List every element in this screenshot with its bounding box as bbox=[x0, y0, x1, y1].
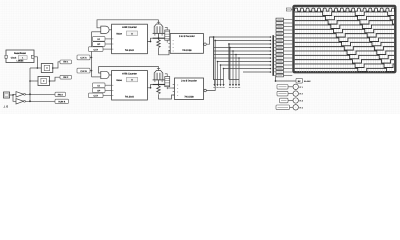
inverted output bubble U4 bbox=[204, 43, 207, 46]
tunnel EN2 bbox=[60, 75, 72, 79]
clock trace row 0 bbox=[295, 8, 395, 11]
tunnel UP 2 bbox=[93, 88, 106, 93]
svg-text:LM555: LM555 bbox=[17, 60, 24, 63]
svg-text:3 to 8 Decoder: 3 to 8 Decoder bbox=[179, 35, 195, 38]
svg-text:4-Bit Counter: 4-Bit Counter bbox=[122, 72, 137, 75]
indicator LED D2 bbox=[277, 91, 304, 96]
indicator LED D4 bbox=[276, 105, 304, 110]
svg-text:74LS138: 74LS138 bbox=[184, 95, 194, 98]
4-bit counter U1 bbox=[112, 24, 148, 54]
svg-text:3 to 8 Decoder: 3 to 8 Decoder bbox=[181, 80, 197, 83]
wire counter RCO to bar bbox=[147, 85, 152, 88]
display input pin ladder bbox=[276, 18, 292, 77]
feedback wire net FB1 bbox=[97, 20, 159, 28]
wire decoder U4 output to bus k0 bbox=[207, 37, 214, 44]
svg-text:BLANK: BLANK bbox=[304, 80, 311, 83]
svg-text:CLK A: CLK A bbox=[80, 57, 87, 60]
ground label bbox=[3, 105, 8, 109]
wire G3 out bbox=[25, 93, 55, 95]
inverted output bubble U5 bbox=[204, 89, 207, 92]
bus rail N1 bbox=[213, 37, 215, 80]
indicator LED D3 bbox=[280, 98, 304, 103]
wire S2 to tunnel EN2 bbox=[50, 77, 61, 81]
wire RN2 to decoder U5 pin bbox=[167, 87, 174, 89]
tunnel CLK B bbox=[77, 68, 90, 73]
wire bus lines bbox=[210, 36, 272, 73]
bus splitter SP1 bbox=[272, 35, 274, 76]
svg-text:UP: UP bbox=[97, 90, 101, 93]
svg-text:74LS161: 74LS161 bbox=[125, 49, 135, 52]
svg-text:⊥ 0: ⊥ 0 bbox=[3, 105, 8, 109]
bus rail N2 bbox=[228, 44, 230, 80]
svg-text:LD: LD bbox=[97, 38, 100, 41]
input pin IN1 bbox=[4, 92, 10, 98]
3-to-8 decoder U5 bbox=[173, 78, 204, 100]
wire splitter bottom to tunnel BK bbox=[276, 76, 297, 81]
resistor R1 bbox=[157, 40, 160, 48]
tunnel EN1 bbox=[60, 60, 72, 64]
svg-text:Value: Value bbox=[116, 79, 122, 82]
sounder LS2 bbox=[153, 66, 165, 82]
svg-text:RUN B: RUN B bbox=[58, 100, 65, 103]
wire clock out to button S1 bbox=[34, 57, 37, 68]
probe arrows group 2 bbox=[229, 48, 240, 88]
resistor network RN2 bbox=[165, 74, 170, 89]
AND gate G1 bbox=[101, 26, 109, 33]
svg-text:Base/Reset: Base/Reset bbox=[14, 52, 26, 55]
tunnel CLK A bbox=[77, 55, 90, 60]
svg-text:EN 1: EN 1 bbox=[63, 61, 69, 64]
3-to-8 decoder U4 bbox=[168, 34, 203, 54]
inverter G4 bbox=[16, 99, 25, 104]
wire S1 to tunnel EN1 bbox=[53, 62, 60, 68]
resistor network RN1 bbox=[165, 27, 170, 42]
wire RN1 to decoder U4 pin bbox=[167, 39, 170, 41]
clock generator U1 bbox=[5, 50, 34, 63]
sounder LS1 bbox=[153, 20, 165, 36]
wires splitter to pins bbox=[273, 37, 276, 76]
svg-text:74LS161: 74LS161 bbox=[125, 96, 135, 99]
wire left rail bbox=[29, 68, 31, 101]
tunnel CLR 1 bbox=[89, 47, 104, 52]
indicator LED D1 bbox=[277, 84, 304, 89]
svg-text:CLK B: CLK B bbox=[80, 70, 87, 73]
wire counter RCO to bar bbox=[147, 38, 152, 41]
tunnel CLR 2 bbox=[89, 93, 104, 98]
wire input to inverters bbox=[10, 93, 17, 96]
wire clk rail bbox=[90, 56, 92, 58]
4-bit counter U2 bbox=[112, 71, 148, 101]
svg-text:CLR: CLR bbox=[94, 95, 99, 98]
wire G4 out bbox=[25, 100, 55, 102]
node T-bar 1 bbox=[153, 33, 165, 39]
wire decoder U5 output up bbox=[206, 41, 215, 91]
tunnel RUN B bbox=[55, 99, 69, 103]
tunnel BK bbox=[296, 78, 311, 83]
node T-bar 2 bbox=[153, 80, 165, 86]
wire gate out bbox=[109, 29, 112, 31]
svg-text:EN 2: EN 2 bbox=[63, 76, 69, 79]
AND gate G2 bbox=[101, 71, 109, 78]
probe arrows group 1 bbox=[213, 62, 225, 88]
push button S2 bbox=[35, 77, 51, 86]
waveform display U6 bbox=[294, 6, 396, 72]
wire gate out bbox=[109, 74, 112, 76]
tunnel LD 2 bbox=[93, 83, 106, 88]
tunnel CLK at display clock pin bbox=[286, 8, 292, 11]
resistor R2 bbox=[157, 86, 160, 94]
svg-text:Clock: Clock bbox=[11, 56, 17, 59]
inverter G3 bbox=[16, 92, 25, 97]
feedback wire net FB2 bbox=[99, 67, 159, 73]
svg-text:Value: Value bbox=[116, 33, 122, 36]
tunnel UP 1 bbox=[93, 42, 106, 47]
svg-text:LD: LD bbox=[97, 84, 100, 87]
push button S1 bbox=[38, 64, 54, 73]
tunnel RN A bbox=[55, 92, 66, 96]
svg-text:CLR: CLR bbox=[94, 48, 99, 51]
svg-text:RN A: RN A bbox=[58, 93, 64, 96]
decoder output traces bbox=[295, 12, 394, 72]
svg-text:UP: UP bbox=[97, 43, 101, 46]
tunnel LD 1 bbox=[93, 37, 106, 42]
wire enable rail to gates bbox=[91, 32, 93, 77]
wire resistor R1 to decoder U4 bbox=[159, 48, 171, 55]
svg-text:4-Bit Counter: 4-Bit Counter bbox=[122, 26, 137, 29]
svg-text:74LS138: 74LS138 bbox=[182, 49, 192, 52]
wire resistor R2 to decoder U5 bbox=[159, 94, 175, 99]
